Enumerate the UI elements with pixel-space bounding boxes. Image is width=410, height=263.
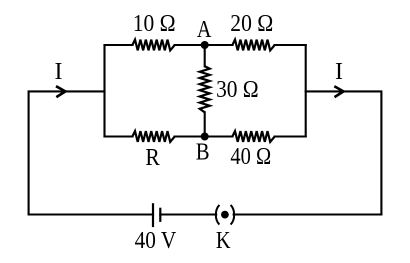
wire top branch middle segment through node A: [175, 44, 233, 46]
key K right arc: [231, 205, 235, 225]
wire bottom branch left segment: [105, 135, 133, 137]
key K dot: [221, 211, 229, 219]
wire battery to key: [160, 213, 216, 215]
battery 40V: long plate: [152, 203, 154, 227]
node B: [201, 133, 209, 141]
wire middle branch lower segment (30 ohm to B): [204, 112, 206, 136]
svg-text:20 Ω: 20 Ω: [230, 11, 273, 37]
wire left side of outer loop (with I arrow feed): [29, 91, 105, 214]
resistor R (bottom left): [132, 131, 174, 142]
wire middle branch upper segment (A to 30 ohm): [204, 45, 206, 66]
svg-text:40 Ω: 40 Ω: [230, 144, 271, 170]
svg-text:K: K: [216, 228, 231, 254]
svg-text:I: I: [55, 59, 63, 85]
svg-text:I: I: [335, 59, 343, 85]
resistor 40 ohm (bottom right): [232, 131, 274, 142]
svg-text:B: B: [196, 139, 210, 165]
key K left arc: [216, 205, 220, 225]
bridge right vertical wire: [305, 45, 307, 137]
resistor 10 ohm (top left): [132, 40, 174, 51]
svg-text:10 Ω: 10 Ω: [133, 11, 176, 37]
svg-text:40 V: 40 V: [135, 228, 177, 254]
battery 40V: short plate: [159, 208, 161, 222]
svg-text:30 Ω: 30 Ω: [216, 77, 259, 103]
svg-text:R: R: [145, 145, 159, 171]
wire top branch right segment: [275, 44, 306, 46]
wire key to bottom right: [234, 213, 382, 215]
bridge left vertical wire: [103, 45, 105, 137]
wire top branch left segment: [105, 44, 133, 46]
wire right side of outer loop (with I arrow feed): [306, 91, 382, 214]
arrow current I (right wire): [334, 86, 343, 97]
wire bottom branch right segment: [275, 135, 306, 137]
wire bottom left to battery: [29, 213, 153, 215]
wire bottom branch middle segment through node B: [175, 135, 233, 137]
resistor 30 ohm (middle, vertical): [200, 66, 210, 112]
resistor 20 ohm (top right): [232, 40, 274, 51]
svg-text:A: A: [197, 17, 212, 43]
arrow current I (left wire): [56, 86, 65, 97]
node A: [201, 41, 209, 49]
